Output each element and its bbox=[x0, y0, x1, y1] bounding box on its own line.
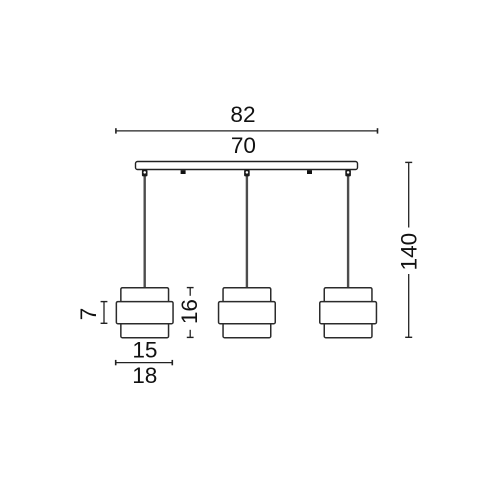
svg-text:7: 7 bbox=[76, 308, 101, 321]
svg-text:15: 15 bbox=[132, 337, 157, 362]
svg-text:70: 70 bbox=[231, 133, 256, 158]
svg-text:18: 18 bbox=[132, 363, 157, 388]
svg-text:82: 82 bbox=[230, 102, 255, 127]
svg-text:16: 16 bbox=[177, 299, 202, 324]
svg-text:140: 140 bbox=[397, 233, 422, 271]
